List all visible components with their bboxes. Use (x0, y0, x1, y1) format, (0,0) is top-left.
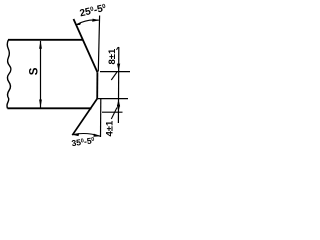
svg-text:350-50: 350-50 (71, 135, 95, 147)
svg-text:S: S (28, 67, 40, 75)
svg-text:4±1: 4±1 (105, 120, 116, 136)
svg-text:8±1: 8±1 (107, 48, 118, 64)
svg-text:250-50: 250-50 (79, 3, 108, 20)
